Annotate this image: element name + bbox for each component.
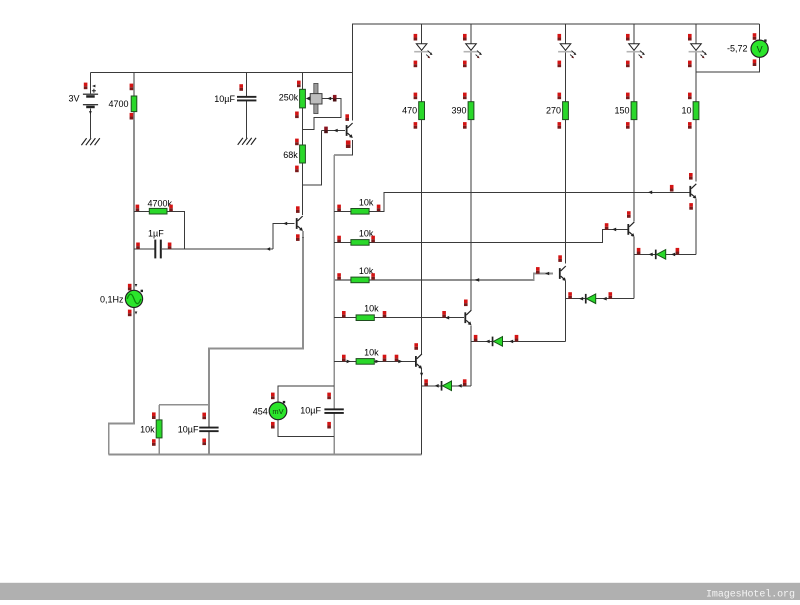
LED LED3 [558,44,576,59]
terminal RV1 bottom [295,112,299,119]
terminal RV1 top [297,81,301,88]
resistor R3 4700k [149,208,167,214]
terminal R12 bottom [626,122,630,129]
wire diode row D1 [422,385,471,387]
wire Q1 emitter to mid bus [334,140,352,155]
junction arrow D3 b [603,297,607,301]
svg-text:1µF: 1µF [148,228,164,238]
junction arrow row5 b [375,360,379,364]
svg-text:10k: 10k [364,304,379,314]
wire LED column 2 [470,24,472,310]
wire diode row D3 [566,298,635,300]
terminal RV1 wiper [333,95,337,102]
terminal D1 left [424,379,428,386]
diode D4 [655,250,666,260]
wire Q2 emitter upper [302,231,304,238]
terminal Q7 emitter [689,203,693,210]
terminal C2 left [136,243,140,250]
terminal M2 top [753,33,757,40]
svg-text:10µF: 10µF [214,94,235,104]
terminal G1 bottom [128,310,132,317]
terminal LED1 anode [414,34,418,41]
svg-text:10k: 10k [364,347,379,357]
resistor R1 4700 [131,96,137,112]
svg-text:-5,72: -5,72 [727,44,748,54]
watermark bar [0,583,800,600]
ground below C1 [238,138,256,145]
wire top LED bus [352,24,759,121]
wire M1 top [278,386,334,402]
terminal R7 left [342,311,346,318]
wire 4700k row right [167,211,185,249]
svg-text:454: 454 [253,407,268,417]
potentiometer RV1 wiper [306,83,322,113]
wire row3 left stub [334,279,351,281]
wire C2 row right [162,248,273,250]
terminal D3 right [609,292,613,299]
junction arrow D4 a [649,253,653,257]
terminal R4 left [337,205,341,212]
junction arrow C2 row [266,247,270,251]
svg-text:10µF: 10µF [178,424,199,434]
terminal G1 top [128,284,132,291]
wire voltmeter bottom [696,57,760,72]
LED LED1 [414,44,432,59]
battery B1 3V [83,89,98,108]
transistor Q1 [346,123,353,138]
svg-text:4700: 4700 [108,99,128,109]
terminal D3 left [568,292,572,299]
terminal R13 bottom [688,122,692,129]
resistor R10 390 [468,102,474,120]
wire Q6 emitter drop [633,237,635,299]
transistor Q4 [464,310,471,325]
terminal Q7 collector [689,173,693,180]
wire meter branch [159,404,209,406]
svg-text:10µF: 10µF [300,406,321,416]
terminal R5 right [371,236,375,243]
junction arrow D4 b [671,253,675,257]
wire voltmeter top drop [759,24,761,40]
wire capacitor C1 column [246,73,248,139]
wire 4700k row left [134,210,149,212]
capacitor C3 10uF [199,427,218,433]
terminal LED2 cathode [463,61,467,68]
wire 4700-to-rows column [133,120,135,249]
terminal R3 left [136,205,140,212]
terminal D4 right [676,248,680,255]
svg-text:270: 270 [546,106,561,116]
resistor R11 270 [563,102,569,120]
terminal LED3 anode [558,34,562,41]
wire diode row D4 [634,253,696,255]
svg-text:V: V [757,45,763,55]
wire R10k top stub [158,405,160,420]
wire diode row D2 [471,340,566,342]
junction arrow G1 bottom tick [135,312,138,315]
junction arrow Q1 base [334,129,338,133]
junction arrow battery lower [89,111,92,114]
wire M1 bottom [278,420,334,437]
wire Q2 base riser [273,224,295,250]
transistor Q2 [296,216,303,231]
diode D2 [492,337,503,347]
junction arrow row3 b [475,278,479,282]
wire Q7 emitter drop [695,199,697,254]
wire mid bus upper [333,155,335,409]
junction arrow row4 a [445,316,449,320]
terminal Q1 emitter [346,140,351,148]
terminal R4 right [377,205,381,212]
terminal R2 bottom [295,166,299,173]
terminal R11 top [558,93,562,100]
svg-text:250k: 250k [279,93,299,103]
svg-text:68k: 68k [283,150,298,160]
signal generator G1 0.1Hz [125,290,143,308]
terminal LED2 anode [463,34,467,41]
junction arrow Q3 emitter [420,373,423,377]
wire potentiometer column [302,73,304,90]
terminal Q4 base [442,311,446,318]
wire LED column 1 [421,24,423,354]
junction arrow row3 a [545,272,549,276]
svg-text:150: 150 [614,106,629,116]
svg-text:3V: 3V [68,94,79,104]
terminal D2 right [515,335,519,342]
resistor R13 10 [693,102,699,120]
wire row2 left stub [334,241,351,243]
terminal R5 left [337,236,341,243]
terminal R11 bottom [558,122,562,129]
wire 68k bottom loop [303,131,322,185]
terminal R14 bottom [152,439,156,446]
svg-text:ImagesHotel.org: ImagesHotel.org [706,589,795,601]
terminal M2 bottom [753,59,757,66]
wire battery bottom to ground [89,108,91,138]
terminal battery top [84,83,88,90]
terminal Q1 base [324,127,328,134]
wire row1 to Q7 base [368,192,690,211]
resistor R6 10k row3 [351,277,369,283]
terminal Q2 collector [296,206,300,213]
wire Q5 emitter drop [565,281,567,341]
voltmeter M2 -5,72V [751,39,768,57]
terminal C3 bottom [202,439,206,446]
terminal LED5 anode [688,34,692,41]
terminal Q3 collector [414,343,418,350]
terminal R6 right [371,273,375,280]
terminal R3 right [169,205,173,212]
wire Q2 emitter path [209,237,303,405]
terminal R7 right [383,311,387,318]
terminal R10 bottom [463,122,467,129]
wire row5 to Q3 base [374,360,415,362]
terminal C2 right [168,243,172,250]
terminal R8 right [383,355,387,362]
terminal R8 left [342,355,346,362]
terminal R1 bottom [130,113,134,120]
terminal LED4 anode [626,34,630,41]
resistor R8 10k row5 [356,359,374,365]
terminal R1 top [130,84,134,91]
terminal M1 top [271,393,275,400]
LED LED2 [464,44,482,59]
svg-text:470: 470 [402,106,417,116]
potentiometer RV1 250k track [300,89,306,108]
terminal R9 top [414,93,418,100]
junction arrow D3 a [579,297,583,301]
capacitor C1 10uF [237,96,256,102]
terminal R10 top [463,93,467,100]
junction arrow D1 b [458,384,462,388]
wire 4700 column top [133,73,135,97]
terminal M1 bottom [271,422,275,429]
transistor Q6 [627,222,634,237]
terminal LED3 cathode [558,61,562,68]
voltmeter M1 454mV [269,401,287,420]
terminal C3 top [202,413,206,420]
junction arrow D1 a [435,384,439,388]
wire R10k bottom stub [158,438,160,455]
junction arrow row5 c [398,360,402,364]
wire LED column 4 [633,24,635,221]
wire 4700 column bottom [133,112,135,121]
wire row3 to Q5 base [368,274,554,280]
terminal Q2 emitter [296,234,300,241]
wire Q3 emitter drop [421,368,423,386]
wire row5 left stub [334,360,356,362]
transistor Q3 [415,354,422,369]
junction arrow battery wire [92,85,95,88]
terminal R12 top [626,93,630,100]
terminal R9 bottom [414,122,418,129]
resistor R7 10k row4 [356,315,374,321]
wire row4 left stub [334,317,356,319]
junction arrow row2 a [612,228,616,232]
capacitor C2 1uF [154,240,162,259]
wire left supply bus [90,72,352,74]
terminal Q5 collector [558,255,562,262]
LED LED4 [627,44,645,59]
svg-text:0,1Hz: 0,1Hz [100,294,124,304]
wire LED column 5 [695,24,697,181]
wire node A riser [421,386,423,455]
resistor R14 10k [156,420,162,438]
terminal LED1 cathode [414,61,418,68]
wire mid bus lower [333,413,335,454]
junction arrow row5 a [347,360,351,364]
terminal R14 top [152,412,156,419]
wire C3 bottom drop [208,432,210,455]
terminal R13 top [688,93,692,100]
junction arrow D2 a [486,340,490,344]
wire Q1 base [322,130,345,132]
junction arrow G1 top tick [135,284,138,287]
resistor R5 10k row2 [351,240,369,246]
terminal C4 top [327,393,331,400]
terminal D2 left [474,335,478,342]
capacitor C4 10uF [324,408,343,414]
wire Q2 collector stub [302,210,304,215]
diode D1 [441,381,452,391]
junction arrow D2 b [509,340,513,344]
wire Q1 collector riser [351,73,353,121]
resistor R9 470 [419,102,425,120]
resistor R2 68k [300,145,306,163]
terminal Q7 base [670,185,674,192]
wire Q4 emitter drop [470,325,472,386]
terminal D1 right [463,379,467,386]
terminal Q6 collector [627,211,631,218]
terminal LED4 cathode [626,61,630,68]
svg-text:10k: 10k [359,197,374,207]
svg-text:10k: 10k [140,424,155,434]
wire 68k-collector segment [302,163,304,215]
svg-text:390: 390 [451,106,466,116]
resistor R4 10k row1 [351,209,369,215]
diode D3 [585,294,596,304]
ground below battery [81,138,99,145]
junction arrow Q2 base [283,222,287,226]
terminal Q5 base [536,267,540,274]
terminal R6 left [337,273,341,280]
wire row1 left stub [334,210,351,212]
wire source column lower [109,307,134,454]
svg-text:4700k: 4700k [148,199,173,209]
terminal R2 top [295,139,299,146]
wire battery top [89,73,91,94]
resistor R12 150 [631,102,637,120]
terminal C1 top [239,84,243,91]
svg-text:10: 10 [681,106,691,116]
terminal D4 left [637,248,641,255]
wire row4 to Q4 base [374,317,464,319]
wire wiper tap [303,99,342,130]
junction arrow wiper [327,97,331,101]
wire C2 row left [134,248,154,250]
wire source column upper [133,249,135,290]
wire C3 top drop [208,405,210,427]
wire row2 to Q6 base [368,229,628,242]
transistor Q5 [559,266,566,281]
svg-text:mV: mV [272,407,283,416]
terminal Q1 collector [345,114,349,121]
terminal Q3 base [395,355,399,362]
terminal LED5 cathode [688,61,692,68]
transistor Q7 [689,184,696,199]
terminal C4 bottom [327,422,331,429]
wire LED column 3 [565,24,567,264]
terminal Q6 base [605,223,609,230]
terminal Q4 collector [464,300,468,307]
wire bottom bus [109,453,422,455]
junction arrow row1 a [648,191,652,195]
LED LED5 [689,44,707,59]
wire pot-68k segment [302,108,304,145]
